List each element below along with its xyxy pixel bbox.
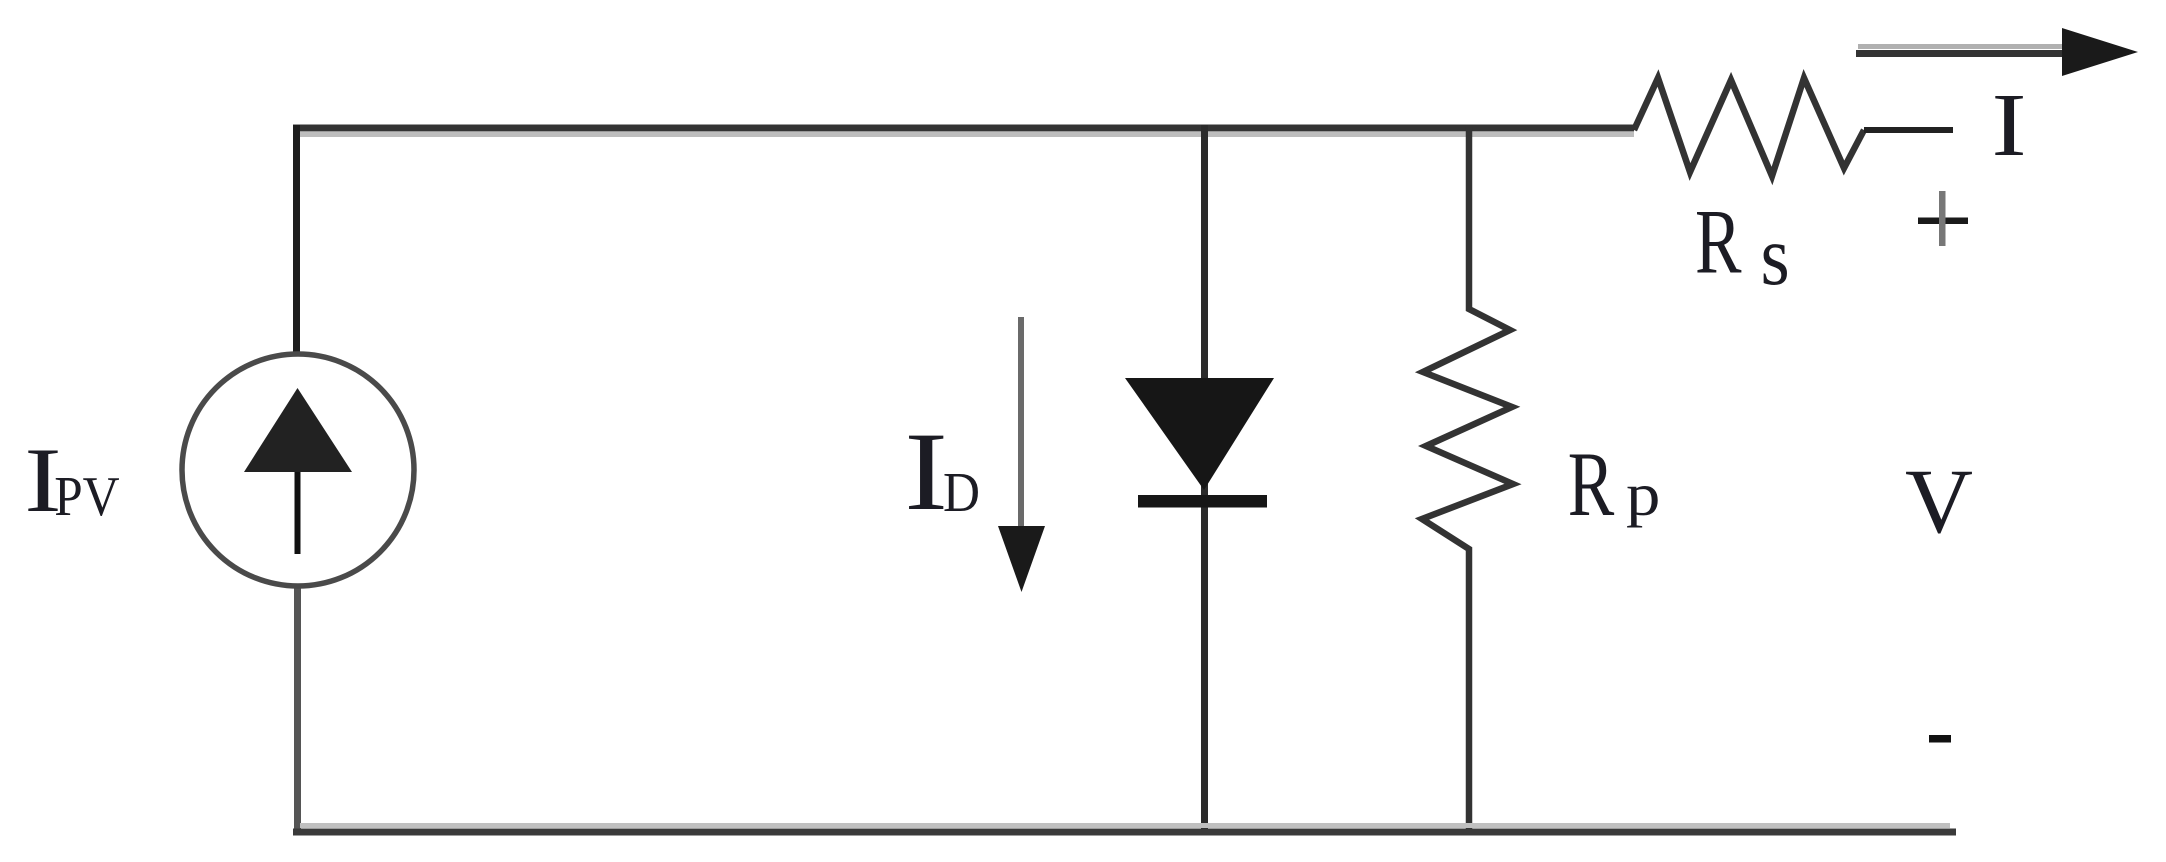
svg-text:PV: PV (54, 466, 119, 528)
wire: bottom horizontal return rail (293, 826, 1956, 833)
diode D cathode bar (1138, 495, 1267, 508)
wire: diode branch vertical (1201, 125, 1208, 835)
wire: top horizontal node (Ipv / D / Rp junction rail) (293, 128, 1634, 135)
wire: Rs output to positive terminal (1864, 127, 1953, 133)
svg-text:D: D (943, 462, 980, 524)
svg-text:R: R (1695, 191, 1742, 293)
current source Ipv (circle with upward arrow) (182, 354, 414, 586)
minus sign (negative terminal) (1929, 735, 1951, 743)
label Id (904, 410, 980, 534)
svg-text:V: V (1905, 450, 1973, 552)
resistor Rs (horizontal zigzag) (1634, 78, 1864, 176)
label Rp (1568, 433, 1661, 535)
arrow Id (diode current, downward) (998, 317, 1045, 592)
label Ipv (24, 430, 119, 531)
plus sign (positive terminal) (1918, 191, 1968, 246)
label I (output current) (1992, 76, 2027, 175)
diode D (filled triangle, cathode down) (1125, 378, 1274, 490)
svg-text:s: s (1761, 209, 1790, 303)
wire: left vertical branch (current source leads) (297, 125, 298, 835)
svg-text:I: I (1992, 76, 2027, 175)
resistor Rp (vertical zigzag) with its branch wires (1422, 127, 1513, 835)
svg-text:R: R (1568, 433, 1615, 535)
label Rs (1695, 191, 1790, 304)
svg-text:I: I (904, 410, 948, 534)
svg-text:p: p (1626, 462, 1660, 528)
arrow I (output current, rightward) (1856, 28, 2138, 76)
